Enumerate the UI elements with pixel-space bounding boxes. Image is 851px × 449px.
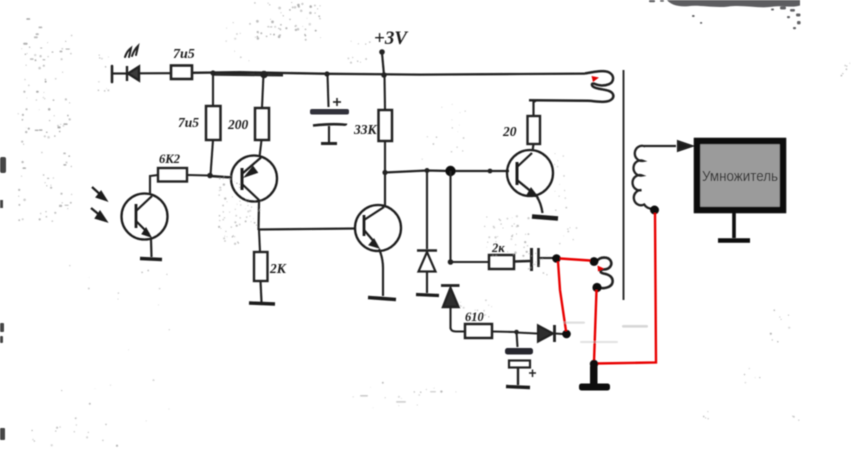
resistor R2 xyxy=(206,106,221,140)
red wire T1 to T2 xyxy=(558,262,566,332)
wire node G to diode VD3 xyxy=(516,333,537,334)
wire R5 to node A xyxy=(187,174,210,177)
red polarity mark on L1 xyxy=(592,76,600,82)
svg-text:+3V: +3V xyxy=(374,28,408,49)
svg-text:7и5: 7и5 xyxy=(178,115,199,130)
wire Q2 collector to Q3 base xyxy=(259,229,356,230)
capacitor C2 electrolytic xyxy=(505,348,533,385)
light arrows into phototransistor xyxy=(91,187,106,221)
wire Q1 collector to R5 xyxy=(150,175,158,194)
capacitor C3 xyxy=(532,248,539,271)
ground R6 xyxy=(249,303,275,304)
resistor R7 xyxy=(489,255,514,269)
wire top rail xyxy=(192,72,585,74)
terminal blob T3 on L2 bottom xyxy=(650,206,659,215)
wire Q1 emitter down xyxy=(150,239,153,257)
wire rail to R3 xyxy=(262,74,264,108)
svg-text:Умножитель: Умножитель xyxy=(702,169,778,185)
label for D1 xyxy=(125,46,138,57)
node B junction xyxy=(382,170,387,175)
wire R2 to node A xyxy=(211,140,214,175)
red wire T5 to ground xyxy=(594,290,597,362)
svg-text:6К2: 6К2 xyxy=(159,152,180,166)
transistor Q3 xyxy=(355,205,401,251)
wire R4 to node B xyxy=(384,141,386,172)
terminal blob T1 xyxy=(552,254,561,263)
node rail-C1 xyxy=(324,71,329,76)
resistor R9 xyxy=(528,116,541,144)
terminal blob T5 on L3 bottom xyxy=(592,283,601,292)
transformer core xyxy=(623,70,625,300)
multiplier stand xyxy=(718,213,750,241)
node rail-R2 xyxy=(210,70,215,75)
diode VD3 xyxy=(538,325,555,342)
svg-text:20: 20 xyxy=(502,124,517,139)
wire R6 to ground xyxy=(261,281,262,302)
phototransistor Q1 xyxy=(122,194,168,240)
+3V terminal dot and stub xyxy=(379,49,385,75)
wire rail to R2 xyxy=(212,73,214,106)
wire Q4 collector to R9 xyxy=(533,144,534,151)
wire VD3 to terminal blob T2 xyxy=(555,332,563,335)
node D junction big xyxy=(445,166,455,176)
node F junction xyxy=(448,259,454,265)
resistor R8 xyxy=(465,324,492,338)
svg-text:610: 610 xyxy=(465,310,485,324)
wire node C to zener VD1 xyxy=(426,171,428,249)
svg-text:7и5: 7и5 xyxy=(173,47,195,62)
wire Q2 collector down xyxy=(257,201,260,230)
wire D1 to resistor R1 xyxy=(139,72,171,74)
wire rail to R4 xyxy=(383,75,386,110)
input terminal xyxy=(111,66,114,82)
red wire T1 to T4 xyxy=(560,259,590,261)
transistor Q4 xyxy=(507,150,553,197)
ground red circuit xyxy=(579,365,610,391)
left edge scan marks xyxy=(0,157,6,440)
red wire ground to T3 riser xyxy=(595,213,656,364)
resistor R6 xyxy=(254,252,268,281)
terminal blob T4 on L3 top xyxy=(590,257,599,266)
wire R7 to C3 xyxy=(514,260,530,263)
svg-text:33К: 33К xyxy=(353,122,378,137)
ground C2 xyxy=(506,387,530,388)
node G junction xyxy=(514,330,519,335)
wire node A to Q2 base xyxy=(210,176,232,178)
zener diode VD1 xyxy=(417,251,437,294)
wire node G to C2 xyxy=(517,332,518,347)
node A junction xyxy=(207,173,213,179)
feedback winding L3 xyxy=(597,258,613,289)
wire node to R6 xyxy=(259,230,260,252)
diode D1 (LED) xyxy=(127,66,139,81)
node rail +3V xyxy=(381,72,387,78)
wire R8 to node G xyxy=(492,330,516,333)
wire rail to C1 xyxy=(328,74,329,107)
resistor R3 xyxy=(255,108,269,140)
node E junction xyxy=(488,169,493,174)
ground Q1 xyxy=(140,259,162,260)
transistor Q2 xyxy=(231,156,277,202)
capacitor C1 electrolytic xyxy=(310,109,349,144)
node C junction xyxy=(425,168,430,173)
wire L2 to multiplier with arrow xyxy=(644,141,692,150)
terminal blob T6 ground xyxy=(590,360,598,368)
polarity plus for C1 xyxy=(333,98,341,106)
wire C3 to terminal blob xyxy=(539,257,553,259)
wire rail overstroke xyxy=(213,73,283,76)
terminal blob T2 xyxy=(562,330,571,339)
wire node B to Q4 base xyxy=(385,171,509,173)
wire Q3 emitter down xyxy=(379,249,383,296)
svg-text:2К: 2К xyxy=(269,261,287,276)
scanner dark band top right xyxy=(667,0,800,7)
svg-text:200: 200 xyxy=(227,117,249,132)
ground Q4 xyxy=(532,217,558,219)
secondary winding L2 xyxy=(633,146,652,209)
wire R9 to primary xyxy=(534,101,537,117)
resistor R1 xyxy=(171,66,192,80)
resistor R4 xyxy=(379,110,393,141)
multiplier box xyxy=(697,141,783,210)
red polarity mark on L3 xyxy=(598,266,605,272)
node rail-R3 xyxy=(260,71,268,79)
wire R3 to Q2 emitter xyxy=(260,140,262,157)
resistor R5 xyxy=(158,168,187,182)
primary winding L1 xyxy=(529,71,613,102)
wire Q4 emitter down xyxy=(537,197,543,213)
wire Q3 collector to node B xyxy=(384,172,386,206)
ground VD1 xyxy=(416,295,439,296)
ground Q3 xyxy=(368,298,396,300)
svg-text:2к: 2к xyxy=(491,241,505,255)
wire node D to diode VD2 xyxy=(449,171,451,262)
diode VD2 xyxy=(441,286,460,330)
polarity plus for C2 xyxy=(529,370,536,378)
wire VD2 to R8 row xyxy=(451,328,466,332)
wire terminal to diode D1 xyxy=(112,72,126,74)
wire node F to R7 xyxy=(451,261,490,263)
